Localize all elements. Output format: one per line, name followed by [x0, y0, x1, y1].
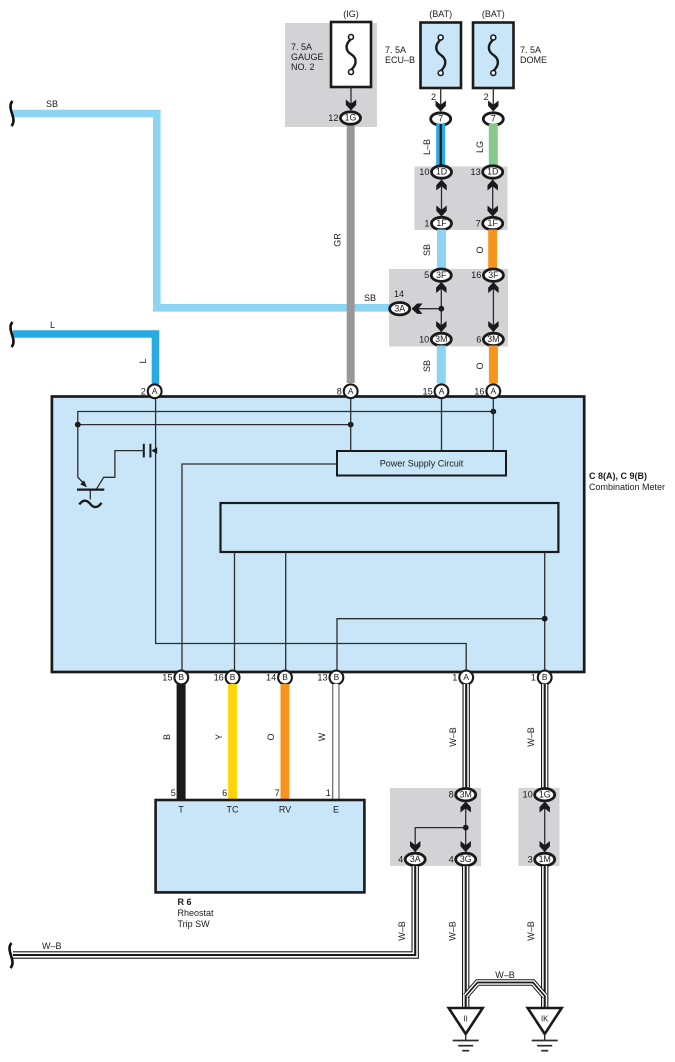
wire W (white) pin 13(B) to rheostat E — [332, 684, 339, 800]
fuse F2 ECU-B body — [421, 23, 462, 89]
internal bus line 1 — [78, 412, 494, 478]
svg-text:B: B — [334, 672, 340, 682]
svg-text:7: 7 — [476, 219, 481, 229]
svg-text:W: W — [317, 732, 327, 741]
svg-text:1: 1 — [424, 219, 429, 229]
svg-text:16: 16 — [471, 270, 481, 280]
svg-text:B: B — [282, 672, 288, 682]
transistor emitter arrow — [78, 477, 84, 483]
wire block to pin 1(B) — [544, 552, 546, 671]
pin 1(A) — [452, 671, 473, 685]
connector oval 13 1D — [470, 166, 502, 178]
svg-text:W–B: W–B — [397, 921, 407, 941]
rheostat R6 body — [156, 800, 365, 892]
svg-text:12: 12 — [328, 113, 338, 123]
svg-text:A: A — [463, 672, 469, 682]
connector oval 10 1D — [419, 166, 451, 178]
svg-text:B: B — [542, 672, 548, 682]
svg-text:B: B — [179, 672, 185, 682]
svg-text:14: 14 — [394, 289, 404, 299]
svg-text:RV: RV — [279, 805, 291, 815]
svg-text:Power Supply Circuit: Power Supply Circuit — [380, 459, 464, 469]
svg-text:B: B — [162, 734, 172, 740]
wire B (black) pin 15(B) to rheostat T — [177, 684, 186, 800]
fuse F1 GAUGE NO.2 body — [331, 22, 371, 87]
wire O 1F to 3F — [488, 230, 497, 270]
branch wire to 3A — [413, 308, 441, 310]
AC squiggle — [79, 501, 101, 507]
svg-text:4: 4 — [398, 854, 403, 864]
svg-text:GR: GR — [333, 233, 343, 247]
connector oval 16 3F — [471, 269, 503, 281]
power supply circuit box — [337, 451, 506, 476]
svg-text:1G: 1G — [539, 789, 551, 799]
arrow into oval 7 right — [488, 101, 498, 112]
svg-text:NO. 2: NO. 2 — [291, 62, 315, 72]
svg-text:C 8(A), C 9(B): C 8(A), C 9(B) — [589, 471, 647, 481]
connector oval 4 3G — [449, 853, 476, 865]
ground IK — [528, 1008, 562, 1034]
fuse F3 DOME body — [473, 23, 514, 89]
wire block to pin 16(B) — [234, 552, 236, 671]
ground II — [449, 1008, 483, 1034]
svg-text:4: 4 — [449, 854, 454, 864]
junction wire 3F to 3M left — [440, 282, 442, 333]
svg-text:O: O — [475, 362, 485, 369]
wire W-B bridge II to IK — [466, 983, 545, 997]
svg-text:II: II — [464, 1015, 468, 1024]
wire W-B 1M to ground IK — [541, 866, 548, 1009]
wire L (blue) from harness break to meter pin 2(A) — [13, 334, 156, 384]
wire O (orange) pin 14(B) to rheostat RV — [281, 684, 290, 800]
svg-text:TC: TC — [227, 805, 239, 815]
wire Y (yellow) pin 16(B) to rheostat TC — [228, 684, 237, 800]
wire W-B from harness break to 4 3A — [13, 866, 415, 955]
svg-text:3M: 3M — [487, 334, 499, 344]
photo element arrow — [151, 447, 157, 454]
wire W-B pin 1(A) to 8 3M — [463, 684, 470, 789]
svg-text:IK: IK — [541, 1015, 549, 1024]
svg-text:2: 2 — [484, 92, 489, 102]
junction wire 1G to 1M — [544, 801, 546, 853]
connector oval 7 1F — [476, 217, 503, 229]
junction wire 3F to 3M right — [492, 282, 494, 333]
svg-text:LG: LG — [475, 141, 485, 153]
svg-text:7: 7 — [491, 114, 496, 124]
svg-text:A: A — [491, 386, 497, 396]
svg-text:7: 7 — [438, 114, 443, 124]
svg-text:2: 2 — [431, 92, 436, 102]
svg-text:1F: 1F — [436, 218, 447, 228]
svg-text:3G: 3G — [460, 854, 472, 864]
connector oval 1 1F — [424, 217, 451, 229]
svg-text:3F: 3F — [488, 270, 499, 280]
transistor base bar — [77, 488, 104, 490]
svg-text:3M: 3M — [435, 334, 447, 344]
junction dot line2 right — [348, 422, 354, 428]
svg-text:A: A — [348, 386, 354, 396]
connector panel 1D/1F (gray) — [415, 167, 508, 231]
meter internal block — [221, 503, 559, 552]
svg-text:W–B: W–B — [448, 921, 458, 941]
harness break symbol (SB wire) — [11, 101, 14, 126]
svg-text:1: 1 — [326, 788, 331, 798]
svg-text:E: E — [333, 805, 339, 815]
connector oval 3 1M — [528, 853, 555, 865]
svg-text:3: 3 — [528, 854, 533, 864]
svg-text:L–B: L–B — [422, 139, 432, 155]
svg-text:5: 5 — [171, 788, 176, 798]
wire O 3M to pin 16(A) — [489, 346, 498, 384]
wire pin 8(A) to power supply — [350, 397, 352, 451]
svg-text:10: 10 — [522, 790, 532, 800]
svg-text:15: 15 — [162, 673, 172, 683]
pin 1(B) — [531, 671, 552, 685]
connector oval 10 3M — [419, 333, 451, 345]
svg-text:3M: 3M — [460, 789, 472, 799]
fuse F2 element — [436, 40, 445, 72]
svg-text:10: 10 — [419, 334, 429, 344]
svg-text:15: 15 — [422, 386, 432, 396]
svg-text:2: 2 — [141, 386, 146, 396]
fuse F3 element — [489, 40, 498, 72]
svg-text:13: 13 — [470, 167, 480, 177]
svg-text:SB: SB — [422, 360, 432, 372]
svg-text:16: 16 — [474, 386, 484, 396]
harness break symbol (W-B wire) — [10, 943, 13, 968]
branch wire to pin 13(B) — [337, 619, 545, 671]
connector oval 6 3M — [476, 333, 503, 345]
connector panel 1G/1M (gray) — [519, 788, 560, 866]
fuse F1 element — [347, 39, 356, 70]
svg-text:3A: 3A — [410, 854, 421, 864]
svg-text:14: 14 — [266, 673, 276, 683]
wire block to pin 14(B) — [285, 552, 287, 671]
wire SB 1F to 3F — [437, 230, 446, 270]
pin 16(A) — [474, 384, 500, 398]
svg-text:Combination Meter: Combination Meter — [589, 482, 665, 492]
fuse block ground panel (gray) — [285, 23, 377, 127]
svg-text:(IG): (IG) — [343, 9, 359, 19]
svg-text:1M: 1M — [539, 854, 551, 864]
svg-text:6: 6 — [222, 788, 227, 798]
svg-text:10: 10 — [419, 167, 429, 177]
svg-text:3A: 3A — [394, 303, 405, 313]
pin 15(A) — [422, 384, 448, 398]
svg-text:SB: SB — [422, 244, 432, 256]
svg-text:Rheostat: Rheostat — [178, 908, 215, 918]
svg-text:SB: SB — [46, 99, 58, 109]
svg-text:7: 7 — [275, 788, 280, 798]
pin 14(B) — [266, 671, 292, 685]
svg-text:DOME: DOME — [520, 55, 547, 65]
svg-text:O: O — [266, 733, 276, 740]
junction dot line1 right — [490, 409, 496, 415]
svg-text:L: L — [50, 320, 55, 330]
svg-text:W–B: W–B — [42, 941, 62, 951]
svg-text:W–B: W–B — [448, 727, 458, 747]
svg-text:1: 1 — [452, 673, 457, 683]
svg-text:(BAT): (BAT) — [482, 9, 505, 19]
pin 8(A) — [337, 384, 358, 398]
connector oval 12 1G — [328, 112, 360, 124]
wire fuse F2 to oval 7 — [440, 88, 442, 111]
connector oval 7 (DOME) — [483, 113, 503, 125]
svg-text:7. 5A: 7. 5A — [385, 45, 406, 55]
pin 13(B) — [317, 671, 343, 685]
wire fuse F3 to oval 7 — [492, 88, 494, 111]
svg-text:W–B: W–B — [495, 970, 515, 980]
svg-text:5: 5 — [424, 270, 429, 280]
connector oval 5 3F — [424, 269, 451, 281]
svg-text:R 6: R 6 — [178, 897, 192, 907]
pin 2(A) — [141, 384, 162, 398]
svg-text:W–B: W–B — [526, 727, 536, 747]
svg-text:7. 5A: 7. 5A — [291, 42, 312, 52]
wire L-B (blue/black) oval7 to 10 1D — [436, 124, 445, 167]
wire pin 15(A) to power supply — [441, 397, 443, 451]
svg-text:8: 8 — [449, 790, 454, 800]
svg-text:T: T — [178, 805, 184, 815]
wire LG (light green) oval7 to 13 1D — [489, 124, 498, 167]
svg-text:GAUGE: GAUGE — [291, 52, 324, 62]
junction wire 1D to 1F left — [441, 179, 443, 217]
svg-text:Y: Y — [214, 734, 224, 740]
pin 16(B) — [214, 671, 240, 685]
svg-text:1: 1 — [531, 673, 536, 683]
arrow into oval 7 left — [436, 101, 446, 112]
svg-text:Trip SW: Trip SW — [178, 919, 211, 929]
svg-text:8: 8 — [337, 386, 342, 396]
connector oval 7 (ECU-B) — [431, 113, 451, 125]
svg-text:6: 6 — [476, 334, 481, 344]
wire pin 16(A) to power supply — [492, 397, 494, 451]
photo element plates — [143, 444, 145, 458]
svg-text:B: B — [230, 672, 236, 682]
wire SB 3M to pin 15(A) — [437, 346, 446, 384]
connector panel 3M/3G (gray) — [390, 788, 481, 866]
junction dot 1(B) branch — [542, 616, 548, 622]
connector oval 3A — [390, 303, 410, 315]
connector oval 10 1G — [522, 789, 554, 801]
svg-text:1D: 1D — [487, 167, 498, 177]
svg-text:(BAT): (BAT) — [429, 9, 452, 19]
connector oval 8 3M — [449, 789, 476, 801]
svg-text:7. 5A: 7. 5A — [520, 45, 541, 55]
pin 15(B) — [162, 671, 188, 685]
wire SB (sky blue) from harness break to junction 3A — [13, 114, 390, 308]
svg-text:1D: 1D — [436, 167, 447, 177]
connector oval 4 3A — [398, 853, 425, 865]
wire W-B 3G to ground II — [462, 866, 469, 1009]
svg-text:SB: SB — [364, 293, 376, 303]
junction dot 3M/3G — [463, 825, 469, 831]
svg-text:16: 16 — [214, 673, 224, 683]
svg-text:13: 13 — [317, 673, 327, 683]
svg-text:ECU–B: ECU–B — [385, 55, 415, 65]
transistor collector lead — [97, 451, 143, 489]
wire GR (gray) fuse GAUGE to meter pin 8(A) — [347, 122, 355, 383]
junction dot 3F/3M — [438, 306, 444, 312]
svg-text:3F: 3F — [436, 270, 447, 280]
wire fuse F1 to connector 1G — [350, 87, 352, 110]
connector panel 3F/3M (gray) — [389, 269, 508, 347]
wire pin 2(A) down-right to pin 1(A) — [156, 397, 467, 671]
wire W-B pin 1(B) to 10 1G — [541, 684, 548, 789]
junction wire 3M to 3G — [465, 801, 467, 853]
svg-text:A: A — [439, 386, 445, 396]
junction dot line2 left — [75, 422, 81, 428]
svg-text:1F: 1F — [488, 218, 499, 228]
combination meter body — [52, 397, 584, 673]
svg-text:L: L — [138, 358, 148, 363]
svg-text:1G: 1G — [345, 113, 357, 123]
transistor emitter to AC — [89, 490, 91, 500]
branch wire to 4 3A — [415, 828, 466, 853]
junction wire 1D to 1F right — [492, 179, 494, 217]
svg-text:W–B: W–B — [526, 921, 536, 941]
internal bus line 2 — [78, 424, 351, 426]
arrow into 1G — [346, 100, 356, 111]
svg-text:A: A — [152, 386, 158, 396]
harness break symbol (L wire) — [11, 322, 14, 347]
svg-text:O: O — [475, 246, 485, 253]
wire power supply to pin 15(B) — [182, 464, 337, 671]
